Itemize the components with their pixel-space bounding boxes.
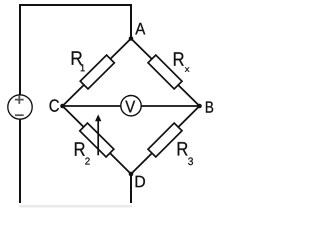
label node B <box>206 101 213 112</box>
label node C <box>50 99 59 111</box>
wire: right vertical drop from top wire down to node A <box>130 4 132 39</box>
wire: left vertical upper segment (top corner to battery top) <box>19 4 21 95</box>
wire: bridge arm D to B (through R3) <box>131 106 200 174</box>
wire: horizontal galvanometer branch C to B <box>63 105 200 107</box>
node A <box>129 36 134 41</box>
resistor Rx <box>148 55 182 89</box>
resistor R3 <box>148 123 182 157</box>
voltmeter V <box>121 96 141 116</box>
resistor R1 <box>80 55 114 89</box>
label R2 <box>75 142 90 164</box>
wire: top horizontal from battery branch to node A branch <box>20 4 131 6</box>
wire: left vertical lower segment (battery bottom to bottom corner) <box>19 119 21 203</box>
wire: vertical from node D down to bottom corner <box>130 174 132 203</box>
label R1 <box>72 51 85 71</box>
wire: bridge arm A to B (through Rx) <box>131 39 200 107</box>
label node A <box>135 23 145 35</box>
node D <box>129 172 134 177</box>
arrow of variable resistor R2 <box>95 114 101 155</box>
label node D <box>136 176 145 187</box>
wire: faint bottom return wire <box>19 205 132 207</box>
node C <box>60 104 65 109</box>
voltage source (battery) <box>8 95 32 119</box>
wire: bridge arm C to D (through R2) <box>63 106 132 174</box>
resistor R2 (variable) <box>80 123 114 157</box>
label Rx <box>174 52 189 71</box>
node B <box>197 104 202 109</box>
wire: bridge arm A to C (through R1) <box>63 39 132 107</box>
label R3 <box>178 142 193 165</box>
